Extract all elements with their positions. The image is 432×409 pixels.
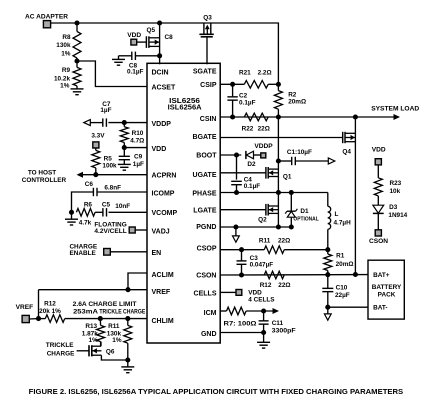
- svg-text:1µF: 1µF: [133, 161, 144, 168]
- wire VADJ: [135, 229, 147, 231]
- capacitor C4: [236, 155, 238, 180]
- svg-text:PACK: PACK: [378, 291, 396, 298]
- svg-text:VDD: VDD: [127, 32, 141, 39]
- wire Q5 to DCIN: [159, 23, 161, 64]
- svg-text:VCOMP: VCOMP: [152, 210, 178, 217]
- diode D3: [373, 205, 384, 213]
- wire top rail: [51, 23, 279, 84]
- resistor R5: [95, 148, 97, 150]
- svg-text:AC ADAPTER: AC ADAPTER: [25, 14, 68, 21]
- svg-text:C6: C6: [85, 181, 94, 188]
- wire VDD pin: [124, 147, 147, 149]
- node C10 bottom / BAT-: [325, 305, 330, 310]
- wire PGND: [220, 226, 291, 228]
- wire CSON / BAT+: [220, 274, 368, 276]
- svg-text:Q4: Q4: [342, 148, 351, 155]
- svg-text:DCIN: DCIN: [152, 69, 169, 76]
- svg-text:130k: 130k: [56, 42, 71, 49]
- svg-text:R13: R13: [85, 323, 97, 330]
- node CSIP-R2: [276, 82, 281, 87]
- svg-text:TRICKLE CHARGE: TRICKLE CHARGE: [99, 309, 145, 316]
- wire BOOT: [220, 154, 241, 156]
- svg-text:CSON: CSON: [196, 273, 216, 280]
- resistor R21: [244, 81, 268, 89]
- node CHLIM-R11: [125, 316, 130, 321]
- svg-text:R5: R5: [104, 156, 113, 163]
- ground C8: [118, 56, 120, 60]
- svg-text:VREF: VREF: [16, 304, 34, 311]
- svg-text:4 CELLS: 4 CELLS: [248, 296, 275, 303]
- svg-text:Q5: Q5: [147, 27, 156, 34]
- svg-text:C2: C2: [239, 92, 248, 99]
- node adapter-R8: [74, 20, 79, 25]
- svg-text:ACPRN: ACPRN: [152, 173, 177, 180]
- svg-text:C1:10µF: C1:10µF: [287, 149, 312, 156]
- svg-text:D3: D3: [389, 204, 398, 211]
- wire ACPRN: [82, 174, 148, 176]
- svg-text:C11: C11: [272, 320, 284, 327]
- transistor Q2: [265, 204, 267, 216]
- svg-text:D1: D1: [300, 208, 309, 215]
- svg-text:ICOMP: ICOMP: [152, 190, 175, 197]
- diode D1 zener optional: [290, 193, 292, 212]
- svg-text:R11: R11: [259, 238, 271, 245]
- ground arrow C10: [327, 307, 329, 314]
- svg-text:R21: R21: [239, 70, 251, 77]
- svg-text:ISL6256A: ISL6256A: [168, 103, 203, 112]
- wire Q2 column: [277, 193, 279, 228]
- ground R9: [71, 88, 84, 90]
- svg-text:1%: 1%: [89, 337, 99, 344]
- node PHASE-C4: [234, 190, 239, 195]
- svg-text:BATTERY: BATTERY: [372, 284, 402, 291]
- wire VDDP pin: [124, 122, 147, 124]
- svg-text:CSIN: CSIN: [200, 116, 217, 123]
- node BAT+ Q4: [353, 272, 358, 277]
- svg-text:C5: C5: [102, 201, 111, 208]
- resistor R8: [76, 23, 78, 32]
- svg-text:2.2Ω: 2.2Ω: [258, 70, 272, 77]
- svg-text:R12: R12: [260, 282, 272, 289]
- svg-text:C8: C8: [165, 34, 174, 41]
- resistor R12 22: [264, 271, 284, 279]
- arrow SYSTEM LOAD: [394, 114, 401, 120]
- capacitor C8: [136, 55, 160, 57]
- svg-text:0.047µF: 0.047µF: [250, 262, 274, 269]
- node ACPRN-R5: [93, 172, 98, 177]
- svg-text:CONTROLLER: CONTROLLER: [22, 177, 67, 184]
- svg-text:Q1: Q1: [283, 174, 292, 181]
- svg-text:R11: R11: [108, 323, 120, 330]
- node VCOMP-C6-gnd: [69, 210, 74, 215]
- wire UGATE: [220, 172, 266, 174]
- resistor R23: [377, 165, 379, 178]
- svg-text:20mΩ: 20mΩ: [288, 99, 306, 106]
- wire ICM: [220, 310, 226, 312]
- svg-text:CELLS: CELLS: [194, 290, 217, 297]
- inductor L 4.7uH: [327, 193, 329, 207]
- arrow ICM: [273, 308, 280, 314]
- node CSIN-R2: [276, 114, 281, 119]
- svg-text:PHASE: PHASE: [192, 190, 216, 197]
- capacitor C10: [327, 275, 329, 289]
- svg-text:100k: 100k: [102, 163, 117, 170]
- resistor R6: [76, 209, 95, 217]
- capacitor C3: [241, 250, 243, 261]
- node VDDP-R10: [122, 120, 127, 125]
- svg-text:VDD: VDD: [248, 289, 262, 296]
- resistor R11 22: [264, 246, 284, 254]
- svg-text:VADJ: VADJ: [152, 228, 170, 235]
- wire PHASE: [220, 192, 328, 194]
- transistor Q4: [342, 132, 344, 143]
- svg-text:Q2: Q2: [258, 217, 267, 224]
- arrow C7: [84, 120, 91, 126]
- node L-R1: [325, 247, 330, 252]
- svg-text:4.2V/CELL: 4.2V/CELL: [94, 228, 127, 235]
- node PHASE-D1: [289, 190, 294, 195]
- wire CSOP: [220, 249, 264, 251]
- diode D2: [245, 151, 247, 159]
- svg-text:CSOP: CSOP: [197, 246, 217, 253]
- svg-text:ICM: ICM: [204, 310, 217, 317]
- node BOOT-C4: [234, 152, 239, 157]
- node CSIP-C2: [230, 82, 235, 87]
- svg-text:4.7µH: 4.7µH: [334, 220, 352, 227]
- wire CELLS: [220, 291, 236, 293]
- svg-text:VDDP: VDDP: [152, 121, 172, 128]
- node CSON-R1: [325, 272, 330, 277]
- ground arrow PGND: [235, 227, 237, 236]
- node ICM-C11: [261, 308, 266, 313]
- svg-text:TRICKLE: TRICKLE: [46, 342, 74, 349]
- resistor R2: [277, 84, 279, 90]
- svg-text:CHLIM: CHLIM: [152, 318, 174, 325]
- svg-text:EN: EN: [152, 250, 162, 257]
- svg-text:PGND: PGND: [196, 224, 216, 231]
- node VDD-C9: [122, 145, 127, 150]
- wire BAT-: [328, 306, 368, 308]
- svg-text:6.8nF: 6.8nF: [104, 184, 121, 191]
- svg-text:LGATE: LGATE: [193, 207, 217, 214]
- battery pack box: [368, 260, 404, 319]
- svg-text:20mΩ: 20mΩ: [336, 261, 354, 268]
- wire GND pin: [220, 332, 263, 334]
- node CHLIM-R13: [98, 316, 103, 321]
- node PGND D1: [289, 224, 294, 229]
- resistor R12 20k: [45, 315, 64, 323]
- wire ACLIM: [128, 273, 147, 290]
- svg-text:BOOT: BOOT: [196, 153, 217, 160]
- svg-text:D2: D2: [247, 161, 256, 168]
- svg-text:4.7Ω: 4.7Ω: [130, 137, 144, 144]
- svg-text:253mA: 253mA: [73, 309, 98, 316]
- node GND-C11: [261, 330, 266, 335]
- svg-text:VDDP: VDDP: [254, 143, 273, 150]
- svg-text:Q6: Q6: [106, 348, 115, 355]
- svg-text:R8: R8: [62, 34, 71, 41]
- node R8-R9-ACSET: [74, 58, 79, 63]
- svg-text:FIGURE 2. ISL6256, ISL6256A T: FIGURE 2. ISL6256, ISL6256A TYPICAL APPL…: [29, 389, 404, 396]
- node DCIN rail: [157, 20, 162, 25]
- wire ICOMP: [97, 191, 147, 193]
- resistor R9: [76, 61, 78, 67]
- svg-text:1N914: 1N914: [388, 212, 407, 219]
- svg-text:1µF: 1µF: [100, 107, 111, 114]
- svg-text:R22: R22: [242, 125, 254, 132]
- node CSON-C3: [239, 272, 244, 277]
- svg-text:C9: C9: [134, 154, 143, 161]
- svg-text:TO HOST: TO HOST: [28, 169, 56, 176]
- svg-text:R12: R12: [44, 301, 56, 308]
- svg-text:22Ω: 22Ω: [278, 238, 290, 245]
- terminal VDD R23: [375, 159, 381, 165]
- svg-text:22Ω: 22Ω: [278, 282, 290, 289]
- svg-text:R6: R6: [84, 201, 93, 208]
- resistor R1: [327, 250, 329, 254]
- svg-text:BGATE: BGATE: [193, 134, 217, 141]
- wire EN: [110, 251, 147, 253]
- svg-text:1%: 1%: [112, 337, 122, 344]
- svg-text:3.3V: 3.3V: [91, 133, 105, 140]
- transistor Q1: [265, 167, 267, 179]
- svg-text:GND: GND: [201, 331, 217, 338]
- node VREF-R12: [36, 316, 41, 321]
- ground Q6 R11: [127, 360, 129, 367]
- terminal CSON: [375, 230, 381, 236]
- node PGND arrow: [233, 224, 238, 229]
- node CSIN-Q4: [353, 114, 358, 119]
- terminal VDD 4CELLS: [236, 290, 242, 296]
- svg-text:SGATE: SGATE: [193, 69, 217, 76]
- wire Q3 gate to SGATE: [206, 37, 208, 65]
- wire VREF down to CHLIM row: [38, 290, 40, 319]
- resistor R22: [244, 113, 268, 121]
- node CSIN-C2: [230, 114, 235, 119]
- svg-text:BAT+: BAT+: [373, 272, 390, 279]
- capacitor C1: [278, 160, 291, 162]
- svg-text:0.1µF: 0.1µF: [239, 100, 256, 107]
- svg-text:ACSET: ACSET: [152, 84, 176, 91]
- svg-text:10nF: 10nF: [115, 203, 130, 210]
- svg-text:UGATE: UGATE: [193, 172, 217, 179]
- ground C9: [118, 163, 131, 165]
- svg-text:L: L: [335, 211, 339, 218]
- svg-text:R9: R9: [62, 67, 71, 74]
- IC U1 ISL6256 body: [147, 63, 220, 343]
- capacitor C5: [102, 208, 104, 216]
- wire CSIN / system load rail: [220, 116, 394, 118]
- resistor R7: [227, 307, 247, 315]
- wire VCOMP: [109, 211, 148, 213]
- svg-text:1%: 1%: [61, 51, 71, 58]
- wire Q6 source to gnd rail: [101, 355, 127, 360]
- svg-text:0.1µF: 0.1µF: [127, 69, 144, 76]
- svg-text:BAT-: BAT-: [373, 305, 387, 312]
- wire Q6 drain to R13: [100, 342, 102, 347]
- svg-text:R23: R23: [390, 180, 402, 187]
- ground R6: [71, 212, 73, 219]
- wire Q1 column: [277, 117, 279, 193]
- wire BGATE: [220, 137, 343, 139]
- svg-text:Q3: Q3: [203, 15, 212, 22]
- svg-text:10.2k: 10.2k: [54, 75, 70, 82]
- wire LGATE: [220, 209, 266, 211]
- resistor R13: [99, 319, 101, 326]
- svg-text:0.1µF: 0.1µF: [244, 183, 261, 190]
- svg-text:22µF: 22µF: [335, 292, 350, 299]
- capacitor C6: [92, 188, 94, 196]
- svg-text:ENABLE: ENABLE: [70, 250, 97, 257]
- svg-text:R10: R10: [132, 130, 144, 137]
- svg-text:VREF: VREF: [152, 289, 171, 296]
- node C1 tap: [276, 158, 281, 163]
- wire ACSET: [77, 61, 147, 87]
- svg-text:VDD: VDD: [152, 146, 167, 153]
- svg-text:CSON: CSON: [369, 238, 388, 245]
- node PHASE-Q2: [276, 190, 281, 195]
- svg-text:ACLIM: ACLIM: [152, 272, 174, 279]
- wire Q4 drain column: [354, 117, 356, 274]
- node DCIN-C8: [157, 53, 162, 58]
- svg-text:10k: 10k: [390, 188, 401, 195]
- svg-text:R2: R2: [288, 91, 297, 98]
- svg-text:3300pF: 3300pF: [272, 328, 296, 335]
- wire CSIP: [220, 83, 244, 85]
- node gnd rail R11: [125, 357, 130, 362]
- svg-text:2.6A CHARGE LIMIT: 2.6A CHARGE LIMIT: [73, 301, 137, 308]
- svg-text:1%: 1%: [60, 83, 70, 90]
- capacitor C2: [232, 84, 234, 96]
- node PGND Q2: [276, 224, 281, 229]
- svg-text:C10: C10: [336, 285, 348, 292]
- resistor R11 130k: [127, 319, 129, 326]
- capacitor C11: [263, 311, 265, 321]
- svg-text:4.7k: 4.7k: [79, 219, 92, 226]
- arrow ACPRN to host: [77, 172, 84, 178]
- svg-text:CSIP: CSIP: [200, 82, 217, 89]
- node CSOP-C3: [239, 247, 244, 252]
- svg-text:22Ω: 22Ω: [258, 125, 270, 132]
- capacitor C7: [108, 122, 124, 124]
- ground GND pin: [263, 333, 265, 343]
- wire VREF: [39, 289, 148, 291]
- resistor R10: [123, 123, 125, 127]
- svg-text:R7: 100Ω: R7: 100Ω: [224, 321, 258, 328]
- node ACLIM-VREF: [125, 287, 130, 292]
- svg-text:CHARGE: CHARGE: [47, 351, 75, 358]
- svg-text:VDD: VDD: [372, 146, 386, 153]
- capacitor C9: [123, 148, 125, 157]
- svg-text:20k 1%: 20k 1%: [39, 308, 61, 315]
- svg-text:SYSTEM LOAD: SYSTEM LOAD: [371, 106, 419, 113]
- svg-text:OPTIONAL: OPTIONAL: [293, 216, 319, 222]
- svg-text:R1: R1: [336, 253, 345, 260]
